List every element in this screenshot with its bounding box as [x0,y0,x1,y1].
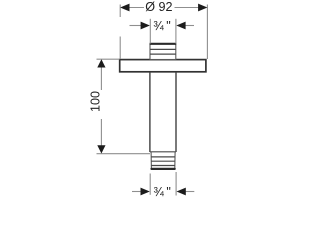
dia92 arrowhead left [120,4,129,12]
pipe right side [175,72,177,152]
dia92 extension line left (upper segment) [119,5,121,18]
svg-text:100: 100 [89,91,103,112]
connector thread line 1 [150,48,176,50]
dim100 dimension line upper segment [100,65,102,90]
three-quarter top extension line right [175,19,177,44]
thread tip bottom thick edge [152,168,175,170]
dia92 dimension line right segment [175,7,201,9]
svg-text:¾ ": ¾ " [153,185,171,199]
connector top thick edge [150,43,177,45]
pipe shoulder [150,151,176,153]
dim100 extension line top [97,58,120,60]
three-quarter bottom arrowhead left [141,188,150,196]
pipe left side [149,72,151,152]
three-quarter bottom tail left [132,191,142,193]
thread tip right side [174,152,176,169]
dim100 arrowhead bottom [97,145,105,153]
three-quarter bottom arrowhead right [177,188,186,196]
dia92 extension line right [206,5,208,60]
thread tip band 1 [151,156,175,158]
dim100 arrowhead top [97,59,105,67]
dim100 dimension line lower segment [100,119,102,148]
connector thread line 2 [150,53,176,55]
dia92 dimension line left segment [127,7,144,9]
three-quarter bottom tail right [185,191,194,193]
three-quarter top arrowhead left [141,22,150,30]
dia92 extension line left (lower segment) [119,37,121,60]
three-quarter top arrowhead right [176,22,185,30]
thread tip band 2 [151,160,175,162]
three-quarter top tail left [130,25,142,27]
three-quarter bottom extension line left [149,174,151,195]
dia92 arrowhead right [198,4,207,12]
connector nipple body [150,44,176,60]
thread tip band 3 [151,165,175,167]
three-quarter top extension line left [149,19,151,44]
three-quarter bottom extension line right [175,172,177,196]
flange (ceiling plate) [120,60,206,72]
thread tip left side [150,152,152,169]
svg-text:Ø 92: Ø 92 [145,0,172,14]
dim100 extension line bottom [97,153,151,155]
three-quarter top tail right [185,25,194,27]
svg-text:¾ ": ¾ " [153,19,171,33]
